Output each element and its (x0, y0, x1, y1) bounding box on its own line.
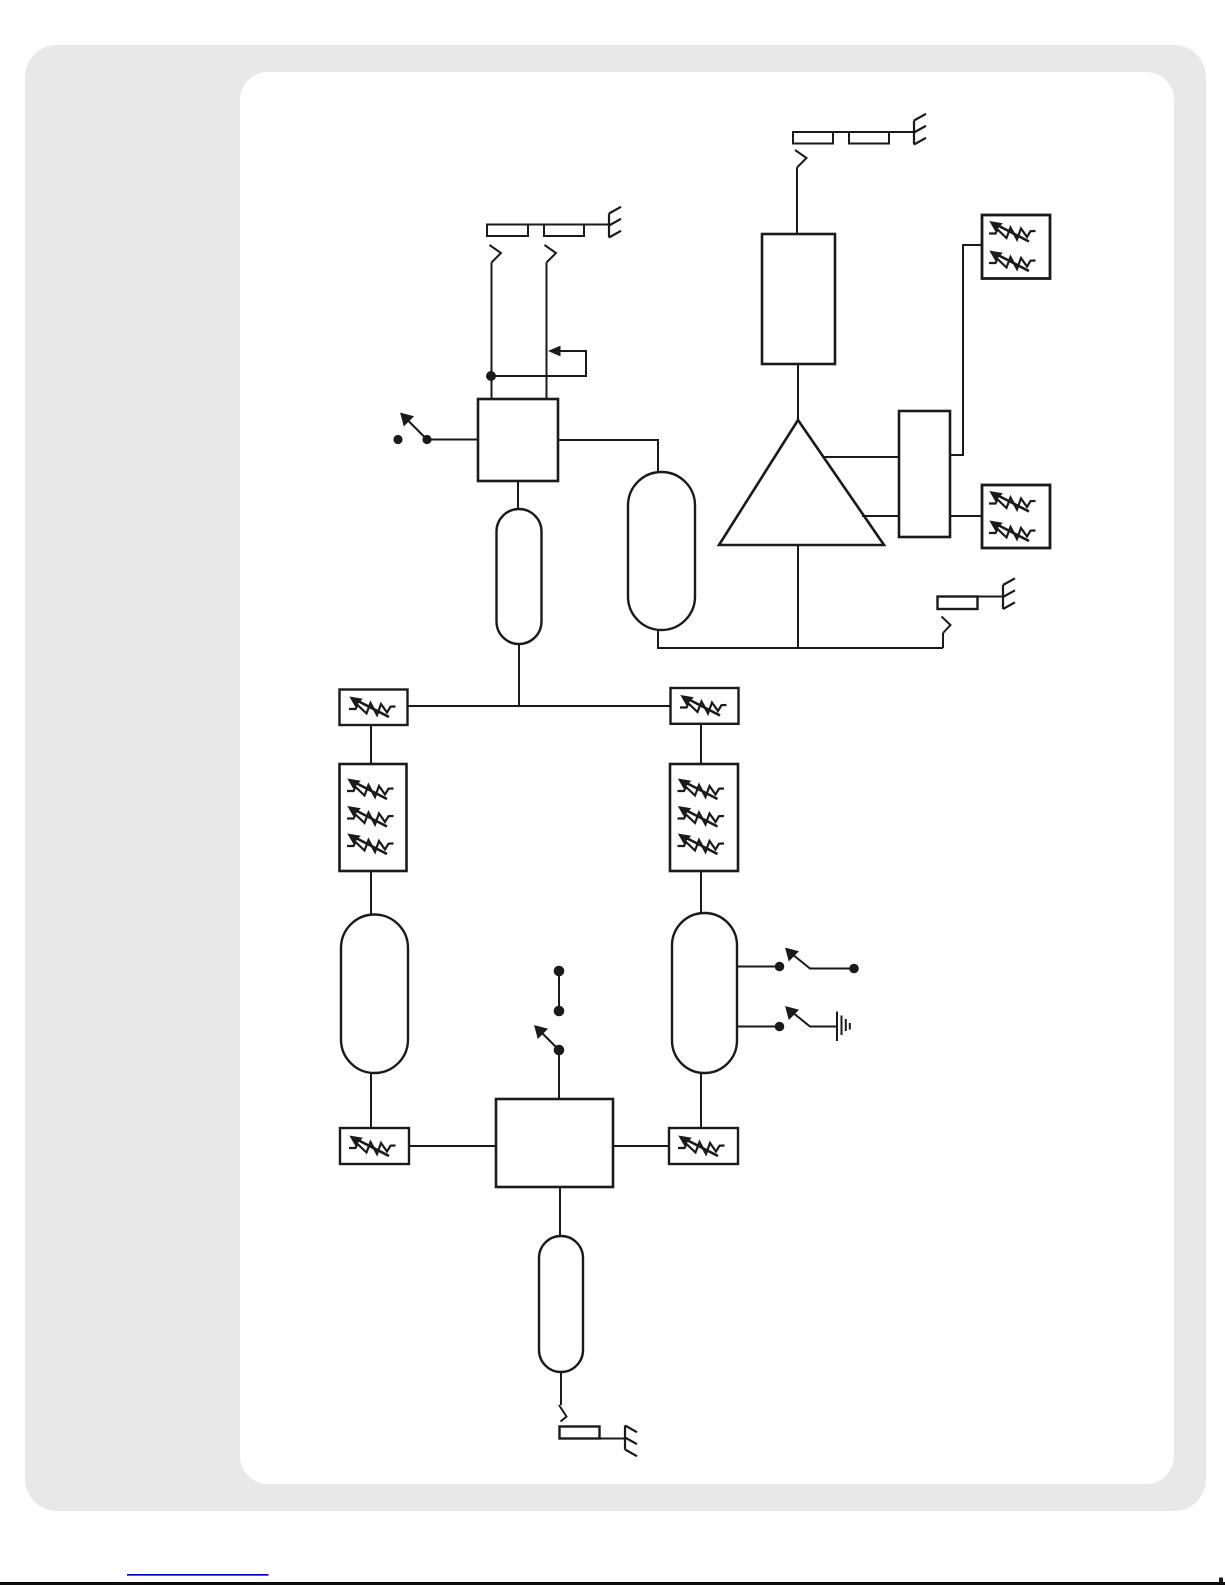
wire (700, 871, 702, 913)
block U3 (899, 411, 950, 537)
amplifier A1 (719, 420, 884, 545)
resistor R5 (793, 132, 833, 144)
wire DL2 to bus (657, 630, 659, 649)
earth ground G4 (837, 1012, 850, 1042)
switch SW2 (536, 966, 565, 1056)
pin break P1b (545, 245, 557, 263)
resistor R3 (938, 597, 978, 610)
resistor R6 (849, 132, 889, 144)
wire (491, 263, 493, 400)
wire SW2 to U4 (558, 1050, 560, 1099)
wire U4 to DL5 (559, 1187, 561, 1236)
wire (370, 871, 372, 915)
pin break P2a (795, 150, 807, 168)
resonator DL3 (341, 915, 408, 1074)
wire (796, 168, 798, 235)
wire A1 tap lower (862, 515, 899, 517)
wire U4 to TR3 (613, 1145, 669, 1147)
resonator DL1 (497, 509, 542, 644)
trimmer box TR1 (671, 688, 739, 724)
wire (546, 263, 548, 400)
wire bus to termination (942, 633, 944, 648)
wire (370, 1073, 372, 1128)
trimmer box TL1 (340, 690, 408, 726)
resonator DL2 (628, 472, 695, 630)
switch SW3 (737, 949, 859, 973)
wire (700, 724, 702, 764)
block U4 (496, 1099, 613, 1187)
trimmer bank TR2 (670, 764, 738, 871)
wire SW1 to U1 (427, 439, 478, 441)
block U2 (762, 234, 835, 364)
wire top-right bias line (793, 131, 914, 133)
wire A1 output down (797, 545, 799, 648)
trimmer bank TL2 (340, 764, 407, 871)
wire TL3 to U4 (409, 1145, 496, 1147)
switch SW1 (393, 414, 431, 444)
resonator DL5 (539, 1236, 583, 1372)
wire U2 to A1 (797, 364, 799, 420)
wire U1 to DL2 (558, 440, 658, 472)
wire U1 to DL1 (517, 481, 519, 509)
node A junction (486, 371, 496, 381)
pin break P1a (490, 245, 502, 263)
wire DL5 down (560, 1372, 562, 1405)
wire U3 to B1 (950, 245, 982, 455)
switch SW4 (737, 1008, 836, 1032)
trimmer box TL3 (340, 1128, 409, 1164)
wire (370, 725, 372, 764)
chassis ground G1 (609, 207, 621, 238)
wire top-left bias line (487, 224, 609, 226)
wire U3 to B2 (950, 515, 982, 517)
trimmer bank B2 (982, 485, 1050, 548)
resonator DL4 (672, 913, 737, 1073)
wire R3 to ground (978, 596, 1004, 598)
trimmer box TR3 (669, 1128, 738, 1164)
resistor R2 (544, 225, 584, 237)
block U1 (478, 399, 558, 481)
pin break P3a (942, 617, 951, 634)
wire splitter bus (407, 705, 671, 707)
wire feedback bus (657, 647, 943, 649)
chassis ground G2 (914, 114, 926, 145)
coupling loop arrow (491, 351, 586, 376)
chassis ground G3 (1003, 578, 1015, 609)
trimmer bank B1 (982, 215, 1050, 279)
wire DL1 to splitter bus (518, 644, 520, 707)
pin break P4a (559, 1405, 567, 1422)
chassis ground G5 (625, 1426, 637, 1457)
wire (700, 1073, 702, 1128)
resistor R1 (487, 225, 528, 237)
wire R4 to ground (600, 1438, 626, 1440)
resistor R4 (560, 1427, 600, 1439)
wire A1 tap upper (823, 456, 899, 458)
